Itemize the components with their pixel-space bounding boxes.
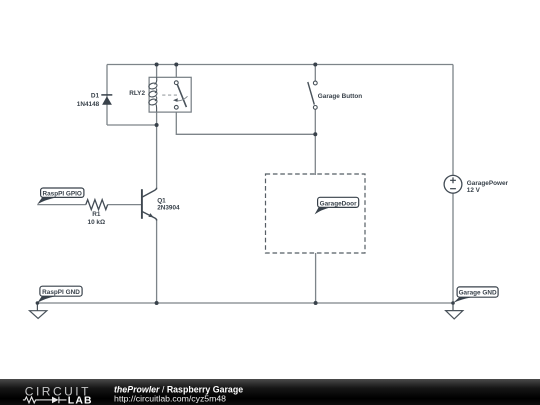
flag RaspPI GND bbox=[37, 286, 82, 303]
ground right bbox=[446, 303, 463, 319]
wire diode bottom horizontal bbox=[107, 124, 157, 126]
ground left bbox=[30, 303, 47, 318]
wire emitter vertical bbox=[156, 219, 158, 303]
svg-text:GarageDoor: GarageDoor bbox=[320, 200, 357, 207]
wire garage door bottom bbox=[315, 253, 317, 303]
transistor Q1 bbox=[142, 188, 157, 221]
svg-text:Garage GND: Garage GND bbox=[459, 290, 497, 297]
wire garage button bottom bbox=[314, 109, 316, 175]
svg-text:2N3904: 2N3904 bbox=[157, 205, 180, 212]
wire relay coil bottom to collector bbox=[156, 112, 158, 190]
wire bottom rail bbox=[37, 302, 453, 304]
wire top rail bbox=[107, 64, 453, 66]
wire relay switch top bbox=[175, 65, 177, 81]
flag GarageDoor bbox=[315, 197, 359, 214]
wire right branch upper bbox=[452, 65, 454, 176]
svg-text:Q1: Q1 bbox=[157, 197, 166, 204]
junction dot switch button bbox=[313, 132, 317, 136]
wire resistor to base bbox=[108, 204, 141, 206]
svg-text:Garage Button: Garage Button bbox=[318, 93, 362, 100]
wire relay switch bottom bbox=[176, 109, 315, 134]
junction dot top rail button bbox=[313, 63, 317, 67]
junction dot top rail switch bbox=[174, 63, 178, 67]
resistor R1 bbox=[86, 200, 108, 210]
junction dot top rail coil bbox=[155, 63, 159, 67]
dashed box GarageDoor bbox=[266, 174, 366, 253]
wire garage button top bbox=[314, 65, 316, 82]
footer bar bbox=[0, 379, 540, 405]
svg-text:D1: D1 bbox=[91, 93, 100, 100]
flag RaspPI GPIO bbox=[37, 188, 84, 204]
svg-text:LAB: LAB bbox=[68, 396, 93, 405]
svg-text:10 kΩ: 10 kΩ bbox=[88, 219, 106, 226]
svg-text:12 V: 12 V bbox=[467, 187, 481, 194]
junction dot bottom right flag bbox=[451, 301, 455, 305]
svg-text:RaspPI GPIO: RaspPI GPIO bbox=[42, 190, 81, 197]
svg-text:http://circuitlab.com/cyz5m48: http://circuitlab.com/cyz5m48 bbox=[114, 394, 226, 404]
voltage source GaragePower bbox=[444, 175, 462, 193]
svg-text:RLY2: RLY2 bbox=[129, 90, 145, 97]
logo mini circuit and LAB bbox=[23, 396, 93, 405]
wire right branch lower bbox=[452, 193, 454, 303]
wire relay coil top bbox=[156, 65, 158, 78]
svg-text:RaspPI GND: RaspPI GND bbox=[42, 289, 80, 296]
svg-text:R1: R1 bbox=[92, 211, 101, 218]
switch Garage Button bbox=[308, 81, 317, 109]
junction dot diode coil bbox=[155, 123, 159, 127]
junction dot emitter rail bbox=[155, 301, 159, 305]
wire diode branch vertical bbox=[106, 65, 108, 126]
flag Garage GND bbox=[453, 287, 498, 303]
wire base from GPIO flag bbox=[37, 204, 86, 206]
svg-text:1N4148: 1N4148 bbox=[77, 101, 100, 108]
junction dot garage door rail bbox=[314, 301, 318, 305]
diode D1 bbox=[101, 95, 112, 105]
junction dot bottom left flag bbox=[36, 301, 40, 305]
relay RLY2 bbox=[148, 77, 191, 112]
